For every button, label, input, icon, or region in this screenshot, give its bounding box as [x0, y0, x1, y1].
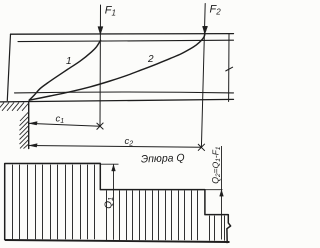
- wall face vertical line: [28, 102, 30, 149]
- c2 right cross terminator: [198, 144, 205, 151]
- dimension c1 line: [29, 122, 205, 151]
- right-end break slash: [226, 67, 233, 71]
- Q1 dimension line: [113, 165, 115, 240]
- Q2 dimension extension line: [205, 189, 223, 191]
- svg-text:c1: c1: [56, 114, 65, 126]
- Q1 arrowhead: [112, 165, 116, 171]
- svg-text:c2: c2: [125, 136, 134, 148]
- dimension c2 line: [29, 146, 202, 148]
- Q1 dimension extension line: [100, 146, 223, 240]
- svg-text:Эпюра Q: Эпюра Q: [141, 152, 185, 166]
- shear diagram outline: [5, 163, 231, 243]
- c1 left arrowhead: [29, 122, 37, 126]
- svg-text:Q2=Q1-F1: Q2=Q1-F1: [211, 146, 222, 184]
- svg-text:F2: F2: [210, 4, 222, 17]
- right-end dimension line: [228, 34, 230, 102]
- wall hatching horizontal band: [0, 102, 29, 110]
- svg-text:2: 2: [147, 54, 154, 65]
- shear diagram hatching: middle block: [107, 191, 198, 241]
- curve 1 (crack to F1): [29, 40, 100, 100]
- force F1 arrowhead: [98, 27, 103, 35]
- Q2 dimension line: [221, 146, 223, 240]
- ground / beam outer bottom line: [0, 99, 234, 102]
- c2 left arrowhead: [29, 144, 37, 148]
- svg-text:1: 1: [66, 56, 72, 67]
- beam outer top line: [11, 33, 234, 36]
- wall hatching vertical band: [20, 112, 29, 149]
- force F2 arrowhead: [203, 26, 208, 34]
- shear diagram baseline: [5, 240, 230, 242]
- c1 right cross terminator: [97, 123, 104, 130]
- svg-text:F1: F1: [105, 5, 116, 18]
- shear diagram hatching: tall block: [13, 165, 95, 240]
- beam inner bottom line: [15, 91, 234, 94]
- shear diagram hatching: low block: [210, 216, 225, 241]
- beam inner top line: [18, 40, 234, 41]
- curve 2 (crack to F2): [29, 35, 205, 100]
- force F1 line: [99, 5, 102, 126]
- beam left edge: [7, 34, 10, 100]
- force F2 line: [201, 4, 205, 148]
- svg-text:Q1: Q1: [103, 197, 115, 209]
- Q2 arrowhead: [220, 190, 224, 196]
